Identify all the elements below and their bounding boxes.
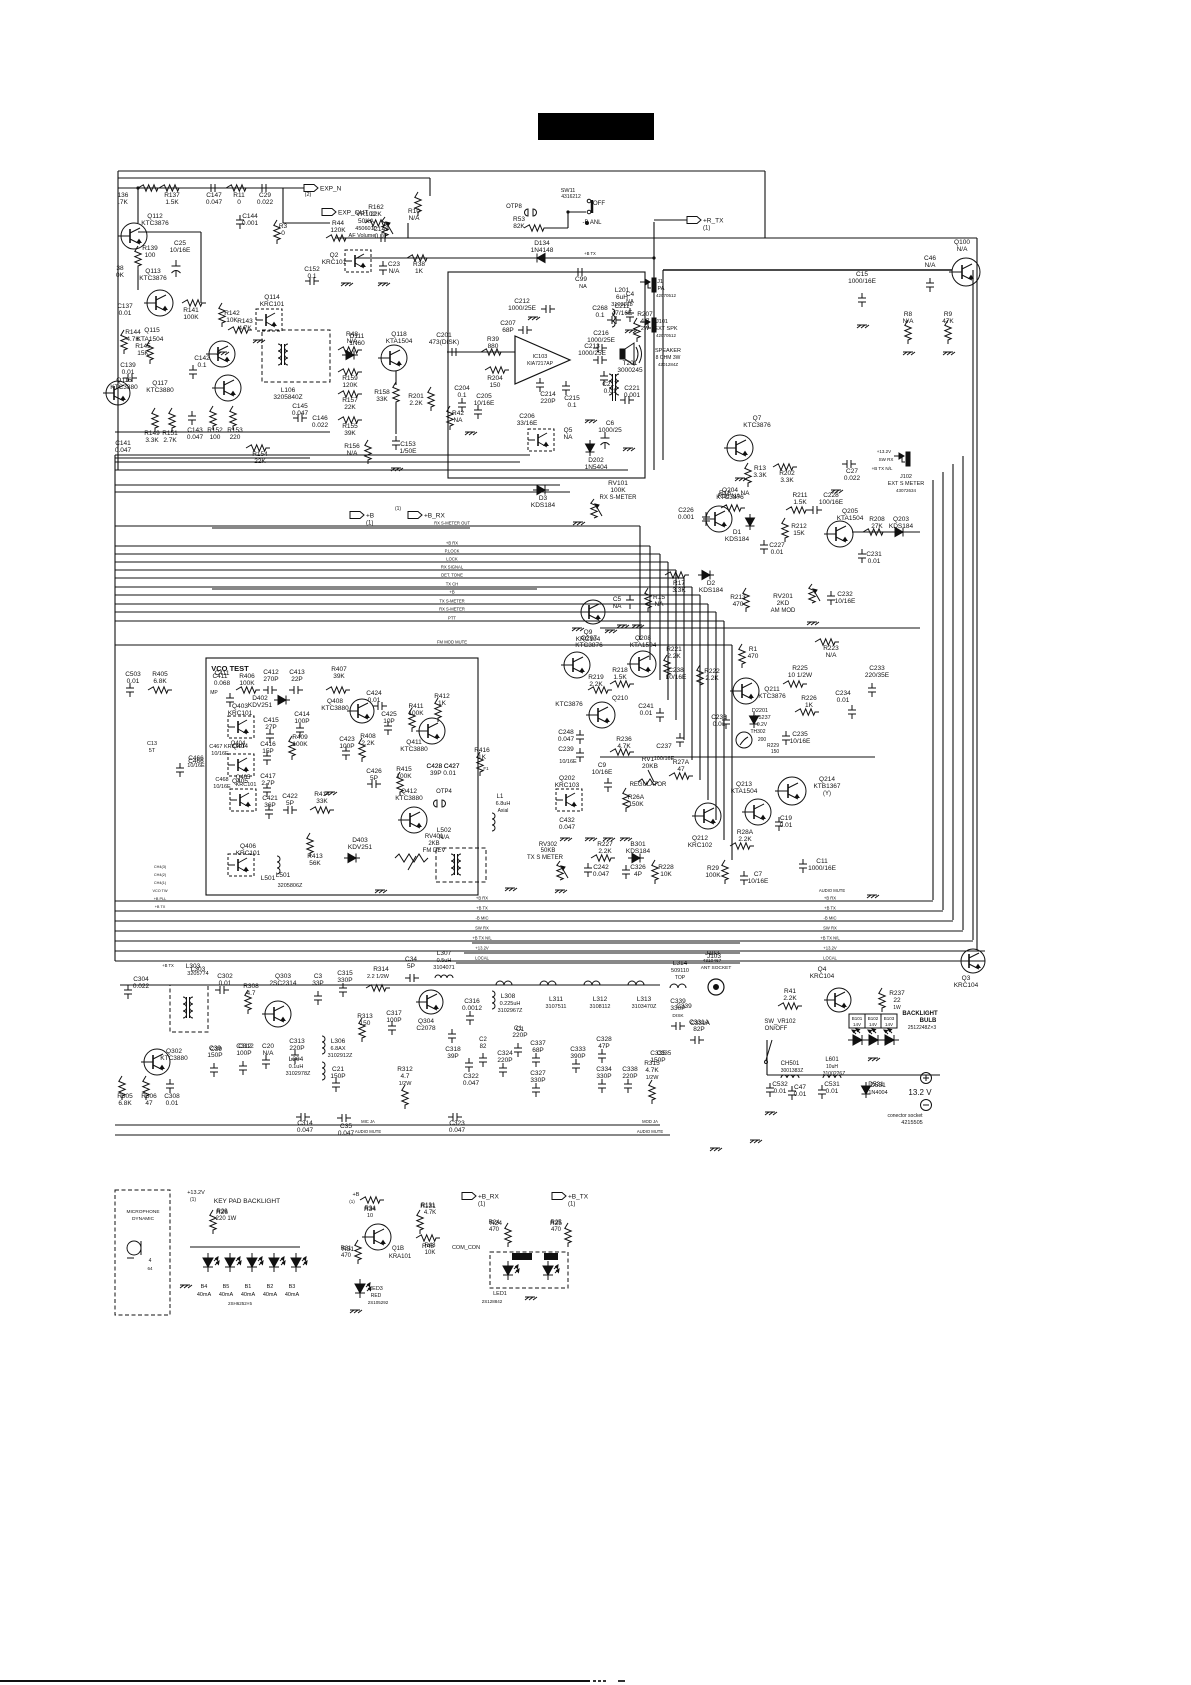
transistor Q112 [118,223,147,249]
svg-text:KRC103: KRC103 [555,782,580,789]
svg-text:KDS184: KDS184 [531,502,556,509]
wire net +B TX N/L bottom [115,940,973,942]
svg-text:0.01: 0.01 [640,710,653,717]
svg-text:47: 47 [145,1100,153,1107]
svg-text:2KB: 2KB [428,841,439,847]
svg-text:D2: D2 [707,580,716,587]
svg-text:0.047: 0.047 [187,434,204,441]
transformer L303 [183,997,193,1018]
svg-text:EXT S METER: EXT S METER [888,481,925,487]
resistor R313 [359,1018,365,1042]
svg-text:0.01: 0.01 [774,1088,787,1095]
capacitor C214 [536,378,544,392]
svg-text:C416: C416 [260,741,276,748]
bulb B101 box [849,1014,865,1028]
svg-text:4201284Z: 4201284Z [658,362,679,367]
svg-text:C47: C47 [794,1084,806,1091]
wire net RX SIGNAL drop [675,570,677,720]
svg-text:R409: R409 [292,734,308,741]
svg-text:330P: 330P [596,1073,611,1080]
wire left border lower [114,455,116,961]
svg-text:C335: C335 [657,1051,672,1057]
svg-text:100P: 100P [294,718,309,725]
svg-text:0.047: 0.047 [559,824,576,831]
svg-text:KTC3880: KTC3880 [146,387,174,394]
switch SW11 [587,199,592,214]
svg-text:C27: C27 [846,468,858,475]
transistor Q5 [528,429,554,451]
LED LED1 red [543,1261,559,1280]
svg-text:R221: R221 [666,646,682,653]
svg-text:(1): (1) [703,226,710,232]
transistor Q406 [228,854,254,876]
svg-text:3108112: 3108112 [589,1004,610,1010]
svg-text:Q1B: Q1B [392,1246,404,1252]
capacitor C313 [291,1050,299,1064]
svg-text:KTA1504: KTA1504 [630,642,657,649]
potentiometer RV1 [638,770,658,785]
svg-text:CH4(3): CH4(3) [154,865,167,869]
potentiometer RV101 [591,499,602,518]
transistor Q3 [958,949,985,973]
LED backlight LED B4 [269,1253,285,1272]
wire net DET. TONE [115,577,684,579]
svg-text:TX S METER: TX S METER [527,855,564,861]
svg-text:R408: R408 [360,733,376,740]
svg-text:1.5K: 1.5K [165,199,179,206]
svg-text:KTC3880: KTC3880 [160,1055,188,1062]
capacitor C139 [123,374,137,382]
wire speaker box left [662,270,664,460]
svg-text:Q214: Q214 [819,776,835,783]
svg-text:C313: C313 [289,1038,305,1045]
svg-text:8 OHM 3W: 8 OHM 3W [656,355,681,361]
resistor R44 [326,235,350,241]
resistor R143 [228,327,252,333]
transistor Q116 [103,381,130,405]
capacitor C503 [126,683,134,697]
svg-text:5P: 5P [286,800,294,807]
svg-text:0: 0 [237,199,241,206]
resistor R10 [415,192,421,216]
svg-text:(1): (1) [568,1202,575,1208]
capacitor C308 [166,1079,174,1093]
svg-text:C532: C532 [772,1081,788,1088]
svg-text:AF Volume: AF Volume [349,233,376,239]
svg-text:R226: R226 [801,695,817,702]
svg-text:0.047: 0.047 [292,410,309,417]
wire LED rail top [190,1246,300,1248]
svg-text:1N5404: 1N5404 [585,464,608,471]
capacitor C324 [499,1063,507,1077]
wire Q211 rail [600,756,875,758]
svg-text:22K: 22K [254,458,266,465]
capacitor C1 [514,1043,522,1057]
svg-text:C304: C304 [133,976,149,983]
svg-text:0.1: 0.1 [457,392,466,399]
svg-text:4.7K: 4.7K [424,1210,436,1216]
resistor R155 [338,417,362,423]
LED B101 [848,1029,867,1045]
svg-text:1/2W: 1/2W [399,1081,413,1087]
svg-text:L311: L311 [549,996,563,1003]
resistor R413 [307,833,313,857]
capacitor C531 [818,1085,826,1099]
transistor Q100 [949,258,980,286]
wire nest h3 [472,942,740,944]
svg-text:C29: C29 [259,192,271,199]
svg-text:R162: R162 [368,204,384,211]
svg-text:DET. TONE: DET. TONE [441,573,463,578]
resistor R219 [588,687,612,693]
svg-text:0.1: 0.1 [197,362,206,369]
svg-text:C153: C153 [400,441,416,448]
capacitor C304 [124,985,132,999]
svg-text:+B TX N/L: +B TX N/L [872,466,893,471]
svg-text:Q2: Q2 [330,252,339,259]
svg-text:MOD JA: MOD JA [642,1119,658,1124]
svg-text:C7: C7 [754,871,763,878]
svg-text:Q403: Q403 [232,703,248,710]
svg-text:+B: +B [449,590,454,595]
svg-text:RED: RED [546,1255,556,1260]
svg-text:ON/OFF: ON/OFF [765,1026,788,1032]
svg-text:Q207: Q207 [581,635,597,642]
svg-text:R228: R228 [658,864,674,871]
svg-text:C152: C152 [304,266,320,273]
junction [652,256,655,259]
svg-text:10K: 10K [660,871,672,878]
capacitor C423 [342,746,350,760]
svg-text:+B RX: +B RX [476,896,488,901]
svg-text:L306: L306 [331,1038,346,1045]
svg-text:+B TX: +B TX [476,906,488,911]
capacitor C416 [263,751,271,765]
svg-text:Q113: Q113 [145,268,161,275]
svg-text:R153: R153 [227,427,243,434]
capacitor C215 [562,381,570,395]
svg-text:C34: C34 [405,956,417,963]
svg-text:N/A: N/A [903,318,915,325]
svg-text:4.7K: 4.7K [126,336,140,343]
svg-text:N/A: N/A [826,652,838,659]
svg-text:C312: C312 [236,1043,252,1050]
diode D403 [344,854,360,863]
svg-text:KRC101: KRC101 [260,301,285,308]
svg-text:15P: 15P [262,748,274,755]
svg-text:R201: R201 [408,393,424,400]
transistor Q403 [228,716,254,738]
diode D2 [698,571,714,580]
svg-text:2.2K: 2.2K [361,740,375,747]
svg-text:C217: C217 [602,381,618,388]
resistor R27A [669,773,693,779]
capacitor C426 [367,780,381,788]
svg-text:+B_RX: +B_RX [478,1194,499,1201]
wire +R_TX drop [653,222,655,470]
svg-text:R26: R26 [216,1209,228,1215]
resistor R159 [338,369,362,375]
svg-text:CH4(1): CH4(1) [154,881,167,885]
ground [735,478,747,481]
svg-text:+B TX: +B TX [824,906,836,911]
svg-text:100/16E: 100/16E [819,499,844,506]
svg-text:R1: R1 [749,646,758,653]
svg-text:KTC3876: KTC3876 [139,275,167,282]
svg-text:10: 10 [367,1213,373,1219]
svg-text:0.1: 0.1 [567,402,576,409]
wire bottom sheet edge [0,1680,590,1682]
svg-text:D531: D531 [870,1082,886,1089]
svg-text:KRC102: KRC102 [688,842,713,849]
wire net PTT drop [723,621,725,840]
svg-text:FM DEV: FM DEV [423,848,446,854]
resistor R225 [783,681,807,687]
svg-text:OTP4: OTP4 [436,789,452,795]
svg-text:+B TX: +B TX [155,905,166,909]
resistor R312 [402,1085,408,1109]
capacitor C412 [263,686,277,694]
svg-text:C308: C308 [164,1093,180,1100]
svg-text:27K: 27K [871,523,883,530]
svg-text:COM_CON: COM_CON [452,1245,480,1251]
capacitor C315 [339,983,347,997]
svg-text:2.2K: 2.2K [783,995,797,1002]
wire net FM MOD MUTE drop [731,645,733,860]
svg-text:C268: C268 [592,305,608,312]
svg-text:2.7P: 2.7P [261,780,274,787]
transistor Q113 [144,290,173,316]
svg-text:R237: R237 [889,990,905,997]
wire net RX SIGNAL [115,569,676,571]
wire VCO enclosure [206,658,478,895]
wire [212,588,537,590]
bulb B102 box [865,1014,881,1028]
svg-text:4310467: 4310467 [703,958,722,964]
ground [180,1285,192,1288]
svg-text:L307: L307 [437,950,452,957]
svg-text:KTC3876: KTC3876 [555,701,583,708]
svg-text:2SH6252×5: 2SH6252×5 [228,1301,252,1306]
resistor R48 [338,347,362,353]
label GREEN [512,1253,532,1260]
ground [217,352,229,355]
svg-text:0.01: 0.01 [826,1088,839,1095]
svg-text:REGULATOR: REGULATOR [630,782,667,788]
capacitor C328 [598,1049,606,1063]
ground [378,283,390,286]
ground [857,325,869,328]
svg-text:R411: R411 [408,703,423,710]
svg-text:3205806Z: 3205806Z [278,883,303,889]
capacitor C316 [466,1011,474,1025]
svg-text:CH4(2): CH4(2) [154,873,167,877]
svg-text:1000/25E: 1000/25E [587,337,615,344]
resistor R13 [745,463,751,487]
svg-text:(1): (1) [349,1199,355,1204]
svg-text:R222: R222 [704,668,720,675]
svg-text:R218: R218 [612,667,628,674]
svg-text:EXT SPK: EXT SPK [654,326,677,332]
wire [115,457,310,459]
svg-text:R208: R208 [869,516,885,523]
junction [136,186,139,189]
wire [395,371,397,385]
svg-text:2.2K: 2.2K [667,653,681,660]
resistor R162 [365,220,389,226]
ground [528,317,540,320]
svg-text:C428 C427: C428 C427 [427,763,460,770]
ground [903,352,915,355]
capacitor C21 [332,1078,340,1092]
capacitor C20 [262,1055,270,1069]
wire net +B drop [699,595,701,780]
svg-text:120K: 120K [330,227,346,234]
wire net -B MIC bottom [115,920,953,922]
svg-text:Q116: Q116 [116,377,132,384]
capacitor C532 [766,1083,774,1097]
svg-text:5P: 5P [370,775,378,782]
svg-text:C466: C466 [188,755,204,762]
svg-text:TH302: TH302 [750,729,765,735]
inductor L304 [322,1062,325,1080]
svg-text:R41: R41 [784,988,796,995]
svg-text:330P: 330P [337,977,352,984]
svg-text:C145: C145 [292,403,308,410]
svg-text:R236: R236 [616,736,632,743]
svg-text:6.8uH: 6.8uH [496,801,511,807]
svg-text:KEY PAD BACKLIGHT: KEY PAD BACKLIGHT [214,1198,280,1205]
svg-text:-B MIC: -B MIC [823,916,836,921]
svg-text:AM MOD: AM MOD [771,608,796,614]
svg-text:N/A: N/A [409,215,421,222]
svg-text:+B TX: +B TX [162,963,174,968]
svg-text:15K: 15K [137,350,149,357]
svg-text:Q408: Q408 [327,698,343,705]
svg-text:C205: C205 [476,393,492,400]
svg-text:0.022: 0.022 [133,983,150,990]
svg-text:R16: R16 [719,490,731,497]
svg-text:(2): (2) [305,192,312,198]
svg-text:NA: NA [740,490,750,497]
svg-text:82: 82 [480,1044,487,1050]
wire [766,1040,768,1075]
resistor R144 [121,330,127,354]
svg-text:SW RX: SW RX [879,457,894,462]
wire net LOCK [115,561,668,563]
svg-text:KTC3876: KTC3876 [575,642,603,649]
capacitor C268 [607,316,621,324]
dot -B ANL [585,221,589,225]
svg-text:2.2K: 2.2K [598,848,612,855]
svg-text:R313: R313 [357,1013,373,1020]
LED backlight LED B5 [291,1253,307,1272]
capacitor C201 [447,348,461,356]
svg-text:10P: 10P [383,718,395,725]
svg-text:C3: C3 [314,973,323,980]
capacitor C46 [926,278,934,292]
capacitor C34 [405,974,419,982]
svg-text:5P: 5P [407,963,415,970]
resistor R15 [645,588,651,612]
transistor Q7 [724,435,753,461]
capacitor C19 [775,817,783,831]
svg-text:0.068: 0.068 [214,680,231,687]
wire net RX S-METER drop [715,612,717,820]
svg-text:47P: 47P [598,1043,610,1050]
svg-text:N/A: N/A [347,338,359,345]
svg-text:R151: R151 [162,430,178,437]
svg-text:N/A: N/A [263,1050,275,1057]
ground [325,792,337,795]
transistor Q405 [230,789,256,811]
capacitor C143 [188,411,196,425]
svg-text:R53: R53 [513,216,525,223]
svg-text:L312: L312 [593,996,608,1003]
svg-text:C326: C326 [630,864,646,871]
diode D202 [586,440,595,456]
resistor R48c [416,1235,440,1241]
svg-text:Q118: Q118 [391,331,407,338]
svg-text:VCO TW: VCO TW [152,889,168,893]
svg-text:+B_RX: +B_RX [424,513,445,520]
diode D2201 [750,712,759,728]
wire [654,219,687,221]
capacitor C339b [671,1022,685,1030]
resistor R308 [245,990,251,1014]
svg-text:+B: +B [366,513,374,520]
svg-text:KRC101: KRC101 [322,259,347,266]
svg-text:R42: R42 [452,410,464,417]
diode D1 [746,514,755,530]
svg-text:R415: R415 [396,766,412,773]
svg-text:150: 150 [490,382,501,389]
ground [807,622,819,625]
svg-text:R212: R212 [791,523,807,530]
capacitor C417 [263,783,271,797]
wire [407,223,409,238]
svg-text:1W: 1W [893,1005,901,1011]
svg-text:4: 4 [149,1258,152,1264]
capacitor C205 [474,405,482,419]
svg-text:(1): (1) [478,1202,485,1208]
wire rail [115,469,628,471]
svg-text:NA: NA [612,603,622,610]
svg-text:N/A: N/A [925,262,937,269]
svg-text:C318: C318 [445,1046,461,1053]
svg-text:DYNAMIC: DYNAMIC [132,1216,155,1222]
svg-text:C417: C417 [260,773,276,780]
wire top rail 2 [118,177,430,179]
svg-text:N/A: N/A [957,246,969,253]
svg-text:KTA1504: KTA1504 [137,336,164,343]
svg-text:NA: NA [579,284,587,290]
capacitor C413 [289,686,303,694]
svg-text:+13.2V: +13.2V [823,946,837,951]
svg-text:R9: R9 [944,311,953,318]
wire RF rail [120,984,660,986]
resistor R314 [366,985,390,991]
svg-text:22P: 22P [291,676,303,683]
wire [137,270,139,290]
svg-text:10/16E: 10/16E [559,759,577,765]
svg-text:1N4004: 1N4004 [868,1090,887,1096]
thermistor TH302 [736,732,752,748]
svg-text:20KB: 20KB [642,763,658,770]
svg-text:2SC2314: 2SC2314 [269,980,296,987]
svg-text:27P: 27P [265,724,277,731]
svg-text:Q412: Q412 [401,788,417,795]
